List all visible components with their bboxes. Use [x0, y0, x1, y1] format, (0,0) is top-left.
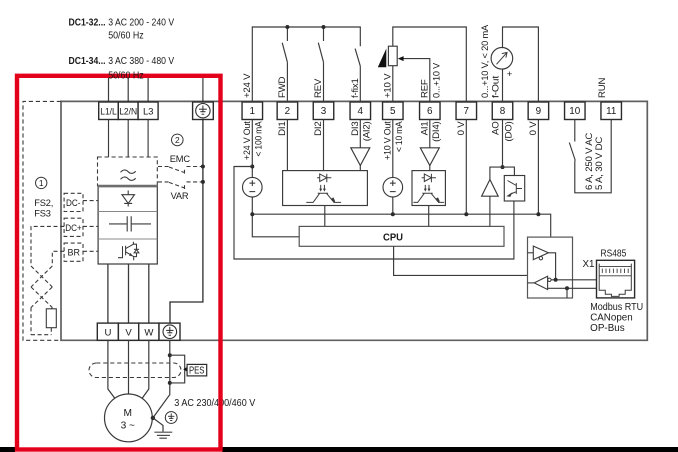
DI opto box	[283, 171, 368, 206]
opto symbol DI	[306, 174, 341, 203]
terminal L3	[138, 102, 158, 120]
earth ground bars	[154, 432, 172, 438]
dashed wire DC- to block	[83, 200, 98, 202]
svg-text:Modbus RTU: Modbus RTU	[590, 302, 643, 313]
svg-text:PES: PES	[189, 365, 205, 376]
svg-text:3 AC 380 - 480 V: 3 AC 380 - 480 V	[108, 56, 174, 67]
svg-text:50/60 Hz: 50/60 Hz	[108, 71, 144, 82]
EMC switch dashed	[158, 167, 203, 174]
junction dot bus t1	[250, 212, 254, 216]
svg-text:+10 V: +10 V	[382, 73, 393, 98]
wire DI2 t3	[323, 120, 325, 171]
wire +10V t5 to source	[392, 120, 394, 178]
meter f-Out circle	[491, 48, 513, 70]
wire 0V t9 to bus	[537, 120, 539, 215]
power block thick top	[98, 185, 158, 188]
svg-text:0 V: 0 V	[456, 121, 467, 136]
svg-text:+10 V Out: +10 V Out	[382, 121, 393, 160]
junction dot rail REV	[322, 25, 326, 29]
X1 RJ45 connector outer	[597, 260, 635, 298]
wire pot top loop to terminal 7	[393, 27, 467, 102]
enclosure main box	[61, 101, 647, 340]
twisted pair bottom link	[31, 334, 51, 336]
svg-text:FS2,: FS2,	[34, 198, 53, 208]
svg-text:1: 1	[250, 106, 256, 117]
svg-text:L2/N: L2/N	[119, 106, 137, 116]
svg-text:BR: BR	[68, 248, 81, 258]
wire 0V t7 to bus	[465, 120, 467, 215]
relay RUN wire bottom U	[575, 120, 611, 193]
svg-text:3 AC 200 - 240 V: 3 AC 200 - 240 V	[108, 18, 174, 29]
svg-text:1: 1	[39, 178, 44, 188]
PES box	[187, 364, 207, 376]
wire inverter to W	[148, 264, 150, 323]
terminal 3	[313, 102, 334, 120]
wire branch left from t1	[234, 167, 514, 260]
AO amp triangle	[482, 180, 499, 197]
circled earth symbol	[165, 412, 177, 424]
wire meter loop t8 t9	[503, 27, 539, 102]
svg-text:(DI4): (DI4)	[431, 122, 442, 142]
TX buffer triangle	[533, 246, 548, 260]
terminal 2	[277, 102, 298, 120]
terminal 8	[492, 102, 513, 120]
svg-text:REF: REF	[419, 79, 430, 98]
dashed wire DC+ left	[31, 226, 64, 266]
brake resistor	[46, 309, 56, 328]
motor circle	[104, 394, 152, 442]
terminal PE top	[193, 102, 214, 120]
wire t8 to AO amp	[490, 167, 503, 179]
svg-text:DI1: DI1	[277, 122, 288, 136]
svg-text:AI1: AI1	[419, 122, 430, 136]
transceiver box	[528, 237, 573, 298]
red highlight box	[17, 76, 221, 450]
junction dot TX-RX	[554, 278, 558, 282]
svg-text:3: 3	[321, 106, 327, 117]
svg-text:3 ~: 3 ~	[121, 421, 135, 432]
svg-text:DC+: DC+	[65, 223, 82, 233]
amp triangle AI1	[420, 148, 439, 166]
footer rule black left segment	[0, 447, 15, 452]
wire inverter to V	[128, 264, 130, 323]
wire bus to CPU left	[252, 214, 299, 237]
DC- dashed terminal box	[64, 193, 83, 211]
wire +24V rail	[252, 27, 360, 102]
terminal V	[118, 323, 138, 340]
DC link capacitor symbol	[109, 216, 151, 231]
VAR switch dashed	[158, 182, 203, 189]
source +10V circle	[383, 177, 403, 197]
wire AI box to CPU	[428, 206, 430, 227]
svg-text:0 V: 0 V	[528, 121, 539, 136]
junction dot PES bottom	[168, 381, 172, 385]
svg-text:5: 5	[390, 106, 396, 117]
junction dot bus t5	[391, 212, 395, 216]
svg-text:11: 11	[606, 106, 617, 117]
meter needle	[497, 52, 508, 64]
relay RUN wire top	[574, 120, 576, 142]
wire L2 input above	[127, 78, 129, 102]
svg-text:10: 10	[569, 106, 580, 117]
opto symbol AI	[413, 174, 444, 203]
svg-text:M: M	[124, 408, 133, 419]
terminal PE bottom	[159, 323, 180, 340]
svg-text:2: 2	[285, 106, 291, 117]
RX buffer triangle	[534, 276, 547, 289]
dashed wire BR left	[52, 251, 64, 266]
DC+ dashed terminal box	[64, 218, 83, 236]
wire +10V source to bus	[392, 197, 394, 214]
AI opto box	[412, 171, 445, 206]
terminal L2/N	[118, 102, 138, 120]
wire L3 input above	[147, 78, 149, 102]
svg-text:+: +	[507, 69, 513, 80]
svg-text:V: V	[125, 327, 132, 338]
motor wire PE	[153, 340, 170, 418]
brake resistor leads	[30, 308, 32, 335]
svg-text:L3: L3	[143, 106, 153, 117]
svg-text:f-Out: f-Out	[491, 75, 502, 98]
svg-text:DC1-34...: DC1-34...	[69, 56, 106, 67]
terminal 7	[456, 102, 477, 120]
wire L1 to EMC filter	[108, 120, 110, 158]
twisted pair X pattern	[31, 266, 52, 308]
potentiometer ramp triangle	[378, 49, 387, 68]
row separators	[98, 211, 157, 213]
PES arrow	[183, 367, 187, 372]
relay RUN blade	[569, 143, 575, 161]
svg-text:DC1-32...: DC1-32...	[69, 18, 106, 29]
wire t8 to DO box	[503, 167, 515, 175]
wire DI3 t4	[359, 120, 361, 148]
junction dot bus t9	[536, 212, 540, 216]
svg-text:+24 V: +24 V	[242, 73, 253, 98]
svg-text:CPU: CPU	[383, 232, 403, 243]
wire inverter to U	[107, 264, 109, 323]
svg-text:4: 4	[358, 106, 364, 117]
svg-text:< 10 mA: < 10 mA	[394, 121, 405, 152]
terminal 6	[420, 102, 441, 120]
svg-text:VAR: VAR	[171, 191, 189, 201]
switch FWD	[286, 27, 288, 41]
BR dashed terminal box	[64, 243, 83, 261]
footer rule black right segment	[222, 447, 678, 452]
circled 1	[36, 177, 47, 188]
svg-text:FS3: FS3	[34, 208, 50, 218]
potentiometer body	[388, 46, 397, 65]
terminal L1/L	[99, 102, 119, 120]
wire PE input above	[202, 78, 204, 102]
EMC filter dashed box	[98, 157, 158, 186]
wire REF wiper from terminal 6	[400, 59, 430, 102]
wire L2 to EMC filter	[127, 120, 129, 158]
svg-text:7: 7	[464, 106, 470, 117]
svg-text:DI2: DI2	[313, 122, 324, 136]
terminal 10	[565, 102, 586, 120]
motor wire U	[108, 340, 115, 398]
svg-text:2: 2	[175, 135, 180, 145]
motor PE junction dot	[151, 416, 155, 420]
svg-text:(DO): (DO)	[504, 121, 515, 141]
wire L1 input above	[108, 78, 110, 102]
motor wire V	[128, 340, 130, 394]
junction dot PES top	[168, 353, 172, 357]
source +24V circle	[243, 177, 263, 197]
DO driver box	[504, 176, 524, 202]
svg-text:6: 6	[427, 106, 433, 117]
junction dot rail FWD	[285, 25, 289, 29]
wire X1 lower	[548, 287, 597, 289]
terminal 5	[383, 102, 404, 120]
PES bracket	[170, 355, 185, 383]
svg-text:U: U	[105, 327, 112, 338]
wire CPU bottom to transceiver	[394, 246, 528, 275]
svg-text:< 100 mA: < 100 mA	[254, 121, 265, 157]
svg-text:EMC: EMC	[170, 154, 191, 164]
wire L3 to EMC filter	[147, 120, 149, 158]
junction dot lower stub	[565, 286, 569, 290]
wire pot bottom to terminal 5	[392, 66, 394, 102]
rectifier diode symbol	[122, 191, 135, 207]
svg-text:0...+10 V: 0...+10 V	[432, 62, 443, 98]
wire DI box to CPU	[324, 206, 326, 227]
svg-text:DI3: DI3	[350, 122, 361, 136]
svg-text:9: 9	[536, 106, 542, 117]
svg-text:f-fix1: f-fix1	[350, 78, 361, 98]
svg-text:50/60 Hz: 50/60 Hz	[108, 30, 144, 41]
junction dot VAR	[201, 180, 205, 184]
RJ45 pins	[602, 269, 628, 273]
circled 2	[172, 134, 184, 146]
junction dot bus t7	[464, 212, 468, 216]
switch f-fix1	[355, 49, 360, 67]
junction dot t1 branch	[250, 165, 254, 169]
svg-text:8: 8	[500, 106, 506, 117]
wiper arrowhead	[398, 56, 404, 61]
terminal 9	[528, 102, 549, 120]
TX enable bubble	[539, 257, 542, 260]
EMC filter wavy symbol	[121, 170, 136, 180]
CPU box	[299, 226, 504, 246]
wire DI1 t2	[286, 120, 288, 171]
switch REV	[323, 27, 325, 41]
wire X1 upper	[551, 279, 596, 281]
RJ45 inner contact strip	[599, 264, 631, 297]
terminal 4	[350, 102, 371, 120]
wire TX out	[548, 253, 555, 280]
amp triangle DI3	[351, 148, 370, 166]
PE trace down to output PE	[170, 120, 203, 324]
DO phototransistor symbol	[506, 181, 522, 197]
wire AO t8 down	[502, 120, 504, 168]
svg-text:3 AC 230/400/460 V: 3 AC 230/400/460 V	[174, 398, 255, 409]
earth wire	[153, 418, 163, 432]
svg-text:5 A, 30 V DC: 5 A, 30 V DC	[594, 137, 605, 190]
junction dot t8	[501, 165, 505, 169]
enclosure dashed extension	[23, 101, 61, 340]
terminal W	[139, 323, 159, 340]
svg-text:FWD: FWD	[277, 76, 288, 98]
terminal 11	[601, 102, 622, 120]
svg-text:X1: X1	[583, 259, 595, 270]
svg-text:DC-: DC-	[66, 198, 81, 208]
svg-text:0...+10 V, < 20 mA: 0...+10 V, < 20 mA	[480, 24, 491, 98]
svg-text:REV: REV	[313, 78, 324, 98]
bus 0V rail	[252, 214, 550, 237]
svg-text:AO: AO	[491, 122, 502, 135]
RX enable bubble	[548, 278, 551, 281]
wire AI1 t6	[429, 120, 431, 148]
dashed wire BR to block	[83, 250, 98, 252]
shield cable dashed oval	[89, 363, 181, 378]
svg-text:(AI2): (AI2)	[362, 122, 373, 142]
svg-text:RS485: RS485	[601, 249, 627, 260]
svg-text:W: W	[144, 327, 154, 338]
svg-text:OP-Bus: OP-Bus	[590, 323, 625, 334]
dashed wire DC+ to block	[83, 225, 98, 227]
svg-text:L1/L: L1/L	[100, 106, 117, 116]
wire AO amp to CPU	[489, 196, 491, 226]
svg-text:+24 V Out: +24 V Out	[242, 121, 253, 160]
motor wire W	[142, 340, 149, 398]
svg-text:RUN: RUN	[597, 78, 608, 98]
wire t1 to source	[251, 120, 253, 178]
power block	[98, 186, 157, 264]
terminal 1	[242, 102, 262, 120]
terminal U	[97, 323, 118, 340]
wire source to bus	[251, 197, 253, 214]
inverter IGBT symbol	[118, 242, 139, 260]
stub to box bottom	[566, 288, 568, 298]
junction dot EMC	[201, 165, 205, 169]
